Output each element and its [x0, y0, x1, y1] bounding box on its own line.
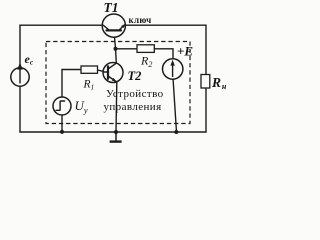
wire U_y bottom lead — [61, 115, 63, 132]
wire U_y top lead to R1 — [62, 70, 81, 98]
svg-text:R2: R2 — [140, 54, 152, 70]
svg-text:eс: eс — [25, 52, 34, 67]
ground — [110, 132, 122, 142]
svg-text:управления: управления — [104, 101, 162, 113]
resistor R1 — [81, 66, 98, 73]
svg-text:Устройство: Устройство — [106, 88, 164, 100]
svg-text:Uу: Uу — [75, 98, 88, 115]
dashed box (control unit boundary) — [46, 42, 190, 124]
wire +E bottom to ground rail — [173, 78, 177, 132]
U_y step-pulse symbol — [56, 101, 65, 110]
wire R2 to +E top — [154, 49, 173, 60]
source +E body — [163, 59, 183, 79]
source e_c body — [11, 68, 29, 86]
svg-text:R1: R1 — [83, 79, 95, 92]
resistor Rn (load) — [201, 75, 210, 89]
wire T1 base to node J1 — [114, 31, 116, 49]
node J1 junction dot — [114, 47, 118, 51]
node +E-rail junction dot — [174, 130, 178, 134]
wire R1 to T2 base — [98, 70, 106, 72]
T2 emitter arrow — [112, 78, 117, 82]
T1 emitter arrow — [121, 24, 125, 28]
wire T2 emitter down to ground rail — [115, 82, 118, 132]
wire J1 to T2 collector — [115, 49, 118, 64]
+E source arrow — [172, 64, 174, 77]
svg-text:Rн: Rн — [211, 75, 227, 91]
transistor T2 body — [103, 63, 123, 83]
svg-text:+Е: +Е — [177, 44, 193, 59]
wire J1 to R2 — [116, 48, 138, 50]
svg-text:Т1: Т1 — [104, 0, 119, 15]
source U_y body — [53, 97, 71, 115]
transistor T1 body — [102, 14, 125, 37]
svg-text:ключ: ключ — [129, 15, 152, 25]
resistor R2 — [137, 45, 154, 53]
node U_y-rail junction dot — [60, 130, 64, 134]
transistor T1 internals — [103, 25, 124, 31]
e_c source arrow — [19, 68, 21, 84]
node ground junction dot — [114, 130, 118, 134]
transistor T2 internals — [103, 63, 117, 82]
svg-text:Т2: Т2 — [128, 69, 142, 83]
wire main loop (top rail, left wire, bottom rail, right wire) — [20, 25, 206, 132]
